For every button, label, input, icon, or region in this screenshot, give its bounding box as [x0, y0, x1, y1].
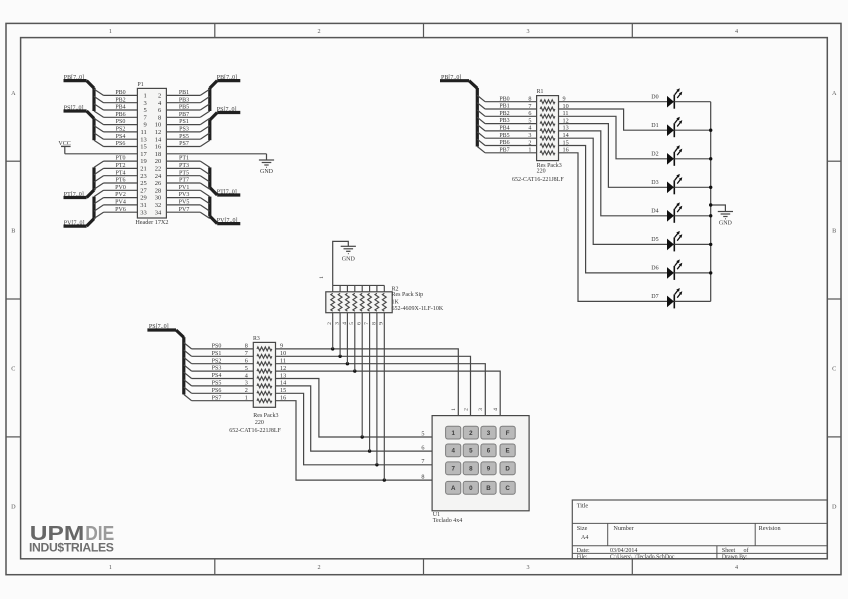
wire net PS0 (P1 pin 9)	[104, 124, 138, 126]
svg-text:PS1: PS1	[212, 351, 222, 357]
svg-text:6: 6	[245, 358, 248, 365]
svg-text:5: 5	[245, 365, 248, 372]
svg-text:PS1: PS1	[179, 119, 189, 125]
R2 common rail (pin 1 side)	[332, 285, 334, 291]
svg-text:30: 30	[155, 195, 162, 202]
resistor pack R2 body (SIP)	[326, 292, 392, 313]
wire R3 pin 14 to keypad row pin 6	[276, 386, 433, 451]
svg-text:6: 6	[487, 448, 491, 455]
wire R3 pin 11 to keypad column pin 3	[276, 364, 486, 416]
svg-text:3: 3	[144, 100, 147, 107]
svg-text:PT3: PT3	[179, 163, 189, 169]
wire R2 pin 3 down to column net	[339, 313, 341, 357]
svg-text:D0: D0	[651, 94, 658, 100]
svg-text:17: 17	[140, 151, 147, 158]
resistor pack R3 body (8 x 220)	[253, 342, 275, 407]
svg-text:2: 2	[318, 564, 321, 571]
svg-text:PV2: PV2	[115, 192, 126, 198]
wire R1 pin 11 to LED D2	[559, 116, 668, 159]
svg-text:PS6: PS6	[212, 388, 222, 394]
svg-text:PS3: PS3	[212, 366, 222, 372]
wire net PB2 into R1 pin 6	[477, 110, 485, 116]
svg-text:Teclado 4x4: Teclado 4x4	[433, 518, 462, 524]
wire R1 pin 10 to LED D1	[559, 109, 668, 130]
svg-text:8: 8	[528, 96, 531, 103]
svg-text:18: 18	[155, 151, 162, 158]
svg-text:PS3: PS3	[179, 127, 189, 133]
wire net PS3 into R3 pin 5	[184, 365, 192, 371]
svg-text:D7: D7	[651, 294, 658, 300]
wire net PS2 into R3 pin 6	[184, 357, 192, 363]
svg-text:PS7: PS7	[179, 141, 189, 147]
wire net PV0 (P1 pin 27)	[104, 189, 138, 191]
wire LED D2 cathode to rail	[674, 158, 710, 160]
svg-text:D5: D5	[651, 237, 658, 243]
wire net PV4 (P1 pin 31)	[104, 204, 138, 206]
svg-text:PB7: PB7	[499, 147, 509, 153]
wire net PV5 (P1 pin 32)	[166, 204, 200, 206]
svg-text:Revision: Revision	[759, 525, 781, 532]
svg-text:2: 2	[528, 139, 531, 146]
svg-text:26: 26	[155, 180, 162, 187]
svg-text:PB2: PB2	[499, 111, 509, 117]
svg-text:31: 31	[140, 202, 147, 209]
wire net PB6 into R1 pin 2	[477, 139, 485, 145]
svg-text:PV5: PV5	[179, 200, 190, 206]
wire net PS2 (P1 pin 11)	[104, 131, 138, 133]
svg-text:PB3: PB3	[179, 97, 189, 103]
wire R2 pin 5 down to column net	[354, 313, 356, 371]
svg-text:PV4: PV4	[115, 200, 126, 206]
svg-text:PV3: PV3	[179, 192, 190, 198]
svg-text:1: 1	[109, 28, 112, 35]
wire LED D5 cathode to rail	[674, 243, 710, 245]
svg-text:3: 3	[526, 564, 529, 571]
wire net PT3 (P1 pin 22)	[166, 167, 200, 169]
wire net PB0 into R1 pin 8	[477, 95, 485, 101]
wire LED D0 cathode to rail	[674, 101, 710, 103]
svg-text:13: 13	[140, 136, 147, 143]
svg-text:652-4609X-1LF-10K: 652-4609X-1LF-10K	[392, 306, 444, 312]
wire rail to GND tap	[711, 205, 726, 212]
wire LED D7 cathode to rail	[674, 300, 710, 302]
svg-text:15: 15	[140, 144, 147, 151]
svg-text:2: 2	[245, 387, 248, 394]
wire R2 pin 4 down to column net	[346, 313, 348, 364]
wire net PT0 (P1 pin 19)	[104, 160, 138, 162]
keypad U1 buttons 4x4	[446, 426, 461, 439]
svg-text:PT5: PT5	[179, 170, 189, 176]
svg-text:D: D	[832, 504, 837, 511]
connector P1 body	[137, 88, 166, 218]
svg-text:B: B	[832, 228, 836, 235]
svg-text:3: 3	[528, 132, 531, 139]
wire net PB7 (P1 pin 8)	[166, 116, 200, 118]
svg-text:PT6: PT6	[115, 178, 125, 184]
svg-text:Date:: Date:	[577, 548, 590, 554]
svg-text:1: 1	[245, 395, 248, 402]
svg-text:PT7: PT7	[179, 178, 189, 184]
svg-text:A: A	[11, 90, 16, 97]
wire net PB1 (P1 pin 2)	[166, 94, 200, 96]
wire net PB4 (P1 pin 5)	[104, 109, 138, 111]
keypad U1 body	[432, 416, 529, 511]
svg-text:PB0: PB0	[115, 90, 125, 96]
svg-text:of: of	[744, 547, 749, 554]
svg-text:2: 2	[158, 93, 161, 100]
wire net PB3 (P1 pin 4)	[166, 102, 200, 104]
wire net PT6 (P1 pin 25)	[104, 182, 138, 184]
wire net PS5 (P1 pin 14)	[166, 138, 200, 140]
svg-text:PB1: PB1	[179, 90, 189, 96]
wire R2 pin 2 down to column net	[332, 313, 334, 349]
svg-text:8: 8	[158, 114, 161, 121]
svg-text:C:\Users\..\Teclado.SchDoc: C:\Users\..\Teclado.SchDoc	[610, 554, 675, 560]
wire net PT7 (P1 pin 26)	[166, 182, 200, 184]
svg-text:1: 1	[451, 408, 457, 411]
svg-text:Number: Number	[613, 525, 633, 532]
svg-text:B: B	[11, 228, 15, 235]
wire net PS7 (P1 pin 16)	[166, 146, 200, 148]
svg-text:8: 8	[421, 474, 424, 481]
svg-text:20: 20	[155, 158, 162, 165]
svg-text:GND: GND	[719, 220, 733, 226]
wire net PB6 (P1 pin 7)	[104, 116, 138, 118]
svg-text:PS4: PS4	[116, 134, 126, 140]
svg-text:7: 7	[245, 350, 248, 357]
wire net PS6 into R3 pin 2	[184, 387, 192, 393]
svg-text:PS4: PS4	[212, 373, 222, 379]
svg-text:PT4: PT4	[115, 170, 125, 176]
wire net PS4 (P1 pin 13)	[104, 138, 138, 140]
svg-text:INDU$TRIALES: INDU$TRIALES	[29, 541, 114, 555]
wire P1 pin 18 to ground	[166, 153, 266, 155]
wire R1 pin 9 to LED D0	[559, 101, 668, 103]
svg-text:12: 12	[155, 129, 162, 136]
svg-text:PT0: PT0	[115, 156, 125, 162]
wire net PB2 (P1 pin 3)	[104, 102, 138, 104]
svg-text:7: 7	[364, 322, 370, 325]
wire net PV1 (P1 pin 28)	[166, 189, 200, 191]
svg-text:PB0: PB0	[499, 96, 509, 102]
svg-text:R3: R3	[253, 336, 260, 342]
wire R3 pin 15 to keypad row pin 7	[276, 393, 433, 465]
svg-text:4: 4	[528, 125, 531, 132]
svg-text:PB6: PB6	[115, 112, 125, 118]
svg-text:3: 3	[526, 28, 529, 35]
svg-text:PS7: PS7	[212, 395, 222, 401]
wire R2 pin 9 down to row net	[383, 313, 385, 480]
wire net PS5 into R3 pin 3	[184, 380, 192, 386]
svg-text:6: 6	[421, 445, 424, 452]
svg-text:Title: Title	[577, 503, 589, 510]
svg-text:A4: A4	[581, 535, 588, 541]
svg-text:D2: D2	[651, 152, 658, 158]
svg-text:PS5: PS5	[212, 381, 222, 387]
svg-text:PB5: PB5	[179, 105, 189, 111]
svg-text:10: 10	[155, 122, 162, 129]
svg-text:PB6: PB6	[499, 140, 509, 146]
svg-text:32: 32	[155, 202, 162, 209]
svg-text:B: B	[486, 485, 491, 492]
wire net PV6 (P1 pin 33)	[104, 211, 138, 213]
svg-text:GND: GND	[260, 169, 274, 175]
svg-text:9: 9	[487, 466, 491, 473]
svg-text:1: 1	[451, 430, 455, 437]
ground GND (R2)	[341, 245, 356, 247]
svg-text:D: D	[11, 504, 16, 511]
svg-text:652-CAT16-221J8LF: 652-CAT16-221J8LF	[229, 428, 281, 434]
svg-text:6: 6	[528, 110, 531, 117]
svg-text:PV0: PV0	[115, 185, 126, 191]
wire net PB1 into R1 pin 7	[477, 103, 485, 109]
svg-text:A: A	[451, 485, 456, 492]
svg-text:U1: U1	[433, 512, 440, 518]
svg-text:PB4: PB4	[499, 126, 509, 132]
svg-text:P1: P1	[138, 82, 144, 88]
svg-text:PS2: PS2	[212, 358, 222, 364]
wire net PS1 into R3 pin 7	[184, 350, 192, 356]
svg-text:652-CAT16-221J8LF: 652-CAT16-221J8LF	[512, 177, 564, 183]
svg-text:Size: Size	[577, 525, 588, 532]
svg-text:4: 4	[451, 448, 455, 455]
svg-text:PB3: PB3	[499, 118, 509, 124]
svg-text:PT1: PT1	[179, 156, 189, 162]
svg-text:24: 24	[155, 173, 162, 180]
svg-text:14: 14	[155, 136, 162, 143]
svg-text:C: C	[505, 485, 510, 492]
svg-text:PB5: PB5	[499, 133, 509, 139]
junction dots on LED rail	[709, 129, 712, 132]
ground GND (LED rail)	[718, 211, 733, 213]
svg-text:7: 7	[421, 458, 424, 465]
svg-text:D4: D4	[651, 209, 658, 215]
resistor pack R1 body (8 x 220)	[537, 96, 559, 161]
svg-text:Header 17X2: Header 17X2	[135, 219, 168, 226]
svg-text:4: 4	[735, 28, 738, 35]
wire R2 pin 6 down to row net	[361, 313, 363, 437]
ground GND (right of P1)	[259, 159, 274, 161]
wire net PT4 (P1 pin 23)	[104, 175, 138, 177]
svg-text:22: 22	[155, 166, 162, 173]
wire R3 pin 13 to keypad row pin 5	[276, 379, 433, 438]
svg-text:5: 5	[421, 430, 424, 437]
svg-text:4: 4	[493, 408, 499, 411]
svg-text:PB7: PB7	[179, 112, 189, 118]
svg-text:E: E	[506, 448, 510, 455]
svg-text:PV6: PV6	[115, 207, 126, 213]
svg-text:5: 5	[528, 117, 531, 124]
svg-text:8: 8	[469, 466, 473, 473]
svg-text:21: 21	[140, 166, 147, 173]
svg-text:5: 5	[469, 448, 473, 455]
wire LED D6 cathode to rail	[674, 272, 710, 274]
svg-text:34: 34	[155, 209, 162, 216]
svg-text:1: 1	[319, 276, 325, 279]
svg-text:3: 3	[245, 380, 248, 387]
wire VCC to P1 pin 17	[65, 153, 138, 155]
wire R2 pin 7 down to row net	[369, 313, 371, 451]
wire net PB5 (P1 pin 6)	[166, 109, 200, 111]
svg-text:7: 7	[528, 103, 531, 110]
wire LED cathode rail	[710, 102, 712, 302]
wire LED D1 cathode to rail	[674, 129, 710, 131]
svg-text:Res Pack Sip: Res Pack Sip	[392, 292, 424, 298]
svg-text:7: 7	[451, 466, 455, 473]
wire net PS0 into R3 pin 8	[184, 343, 192, 349]
wire net PT1 (P1 pin 20)	[166, 160, 200, 162]
svg-text:PS0: PS0	[212, 344, 222, 350]
svg-text:PB2: PB2	[115, 97, 125, 103]
svg-text:1: 1	[109, 564, 112, 571]
svg-text:A: A	[832, 90, 837, 97]
svg-text:GND: GND	[342, 256, 356, 262]
svg-text:5: 5	[144, 107, 147, 114]
svg-text:11: 11	[141, 129, 147, 136]
svg-text:16: 16	[155, 144, 162, 151]
title block frame	[572, 500, 827, 559]
wire LED D3 cathode to rail	[674, 186, 710, 188]
svg-text:1K: 1K	[392, 299, 400, 305]
svg-text:0: 0	[469, 485, 473, 492]
svg-text:C: C	[11, 366, 15, 373]
wire net PB4 into R1 pin 4	[477, 125, 485, 131]
wire net PS6 (P1 pin 15)	[104, 146, 138, 148]
svg-text:33: 33	[140, 209, 147, 216]
wire R1 pin 16 to LED D7	[559, 153, 668, 302]
wire net PB5 into R1 pin 3	[477, 132, 485, 138]
wire LED D4 cathode to rail	[674, 215, 710, 217]
wire R1 pin 12 to LED D3	[559, 124, 668, 188]
svg-text:4: 4	[735, 564, 738, 571]
svg-text:PT2: PT2	[115, 163, 125, 169]
wire R1 pin 15 to LED D6	[559, 146, 668, 273]
svg-text:PB1: PB1	[499, 104, 509, 110]
svg-text:Res Pack3: Res Pack3	[253, 413, 278, 419]
wire net PV7 (P1 pin 34)	[166, 211, 200, 213]
svg-text:8: 8	[245, 343, 248, 350]
wire net PB3 into R1 pin 5	[477, 117, 485, 123]
svg-text:2: 2	[318, 28, 321, 35]
svg-text:D: D	[505, 466, 510, 473]
svg-text:F: F	[506, 430, 510, 437]
wire net PV2 (P1 pin 29)	[104, 197, 138, 199]
svg-text:220: 220	[255, 420, 264, 426]
svg-text:28: 28	[155, 187, 162, 194]
wire R3 pin 16 to keypad row pin 8	[276, 401, 433, 480]
wire net PT5 (P1 pin 24)	[166, 175, 200, 177]
svg-text:2: 2	[469, 430, 473, 437]
svg-text:29: 29	[140, 195, 147, 202]
svg-text:C: C	[832, 366, 836, 373]
svg-text:220: 220	[537, 168, 546, 174]
svg-text:PS0: PS0	[116, 119, 126, 125]
wire R3 pin 12 to keypad column pin 4	[276, 371, 501, 416]
wire R3 pin 10 to keypad column pin 2	[276, 356, 471, 415]
wire net PV3 (P1 pin 30)	[166, 197, 200, 199]
svg-text:03/04/2014: 03/04/2014	[610, 548, 637, 554]
svg-text:1: 1	[144, 93, 147, 100]
svg-text:R1: R1	[537, 89, 544, 95]
R2 resistor elements	[331, 293, 335, 311]
wire net PS4 into R3 pin 4	[184, 372, 192, 378]
border zone tick marks	[214, 23, 216, 37]
svg-text:PB4: PB4	[115, 105, 125, 111]
svg-text:D3: D3	[651, 180, 658, 186]
svg-text:9: 9	[144, 122, 147, 129]
svg-text:Drawn By:: Drawn By:	[722, 554, 748, 560]
svg-text:3: 3	[478, 408, 484, 411]
wire R2 pin1 to ground	[333, 241, 349, 285]
wire net PB0 (P1 pin 1)	[104, 94, 138, 96]
svg-text:3: 3	[487, 430, 491, 437]
svg-text:D1: D1	[651, 123, 658, 129]
svg-text:19: 19	[140, 158, 147, 165]
svg-text:2: 2	[463, 408, 469, 411]
wire net PB7 into R1 pin 1	[477, 147, 485, 153]
svg-text:File:: File:	[577, 554, 588, 560]
svg-text:1: 1	[528, 147, 531, 154]
svg-text:23: 23	[140, 173, 147, 180]
wire net PS1 (P1 pin 10)	[166, 124, 200, 126]
wire R1 pin 14 to LED D5	[559, 138, 668, 244]
svg-text:4: 4	[245, 372, 248, 379]
wire net PS7 into R3 pin 1	[184, 394, 192, 400]
svg-text:25: 25	[140, 180, 147, 187]
svg-text:Sheet: Sheet	[722, 548, 736, 554]
wire R1 pin 13 to LED D4	[559, 131, 668, 216]
svg-text:PV1: PV1	[179, 185, 190, 191]
wire R2 pin 8 down to row net	[376, 313, 378, 465]
wire R3 pin 9 to keypad column pin 1	[276, 349, 459, 416]
svg-text:27: 27	[140, 187, 147, 194]
svg-text:PV7: PV7	[179, 207, 190, 213]
svg-text:PS5: PS5	[179, 134, 189, 140]
svg-text:PS2: PS2	[116, 127, 126, 133]
wire net PT2 (P1 pin 21)	[104, 167, 138, 169]
svg-text:PS6: PS6	[116, 141, 126, 147]
svg-text:D6: D6	[651, 266, 658, 272]
wire net PS3 (P1 pin 12)	[166, 131, 200, 133]
